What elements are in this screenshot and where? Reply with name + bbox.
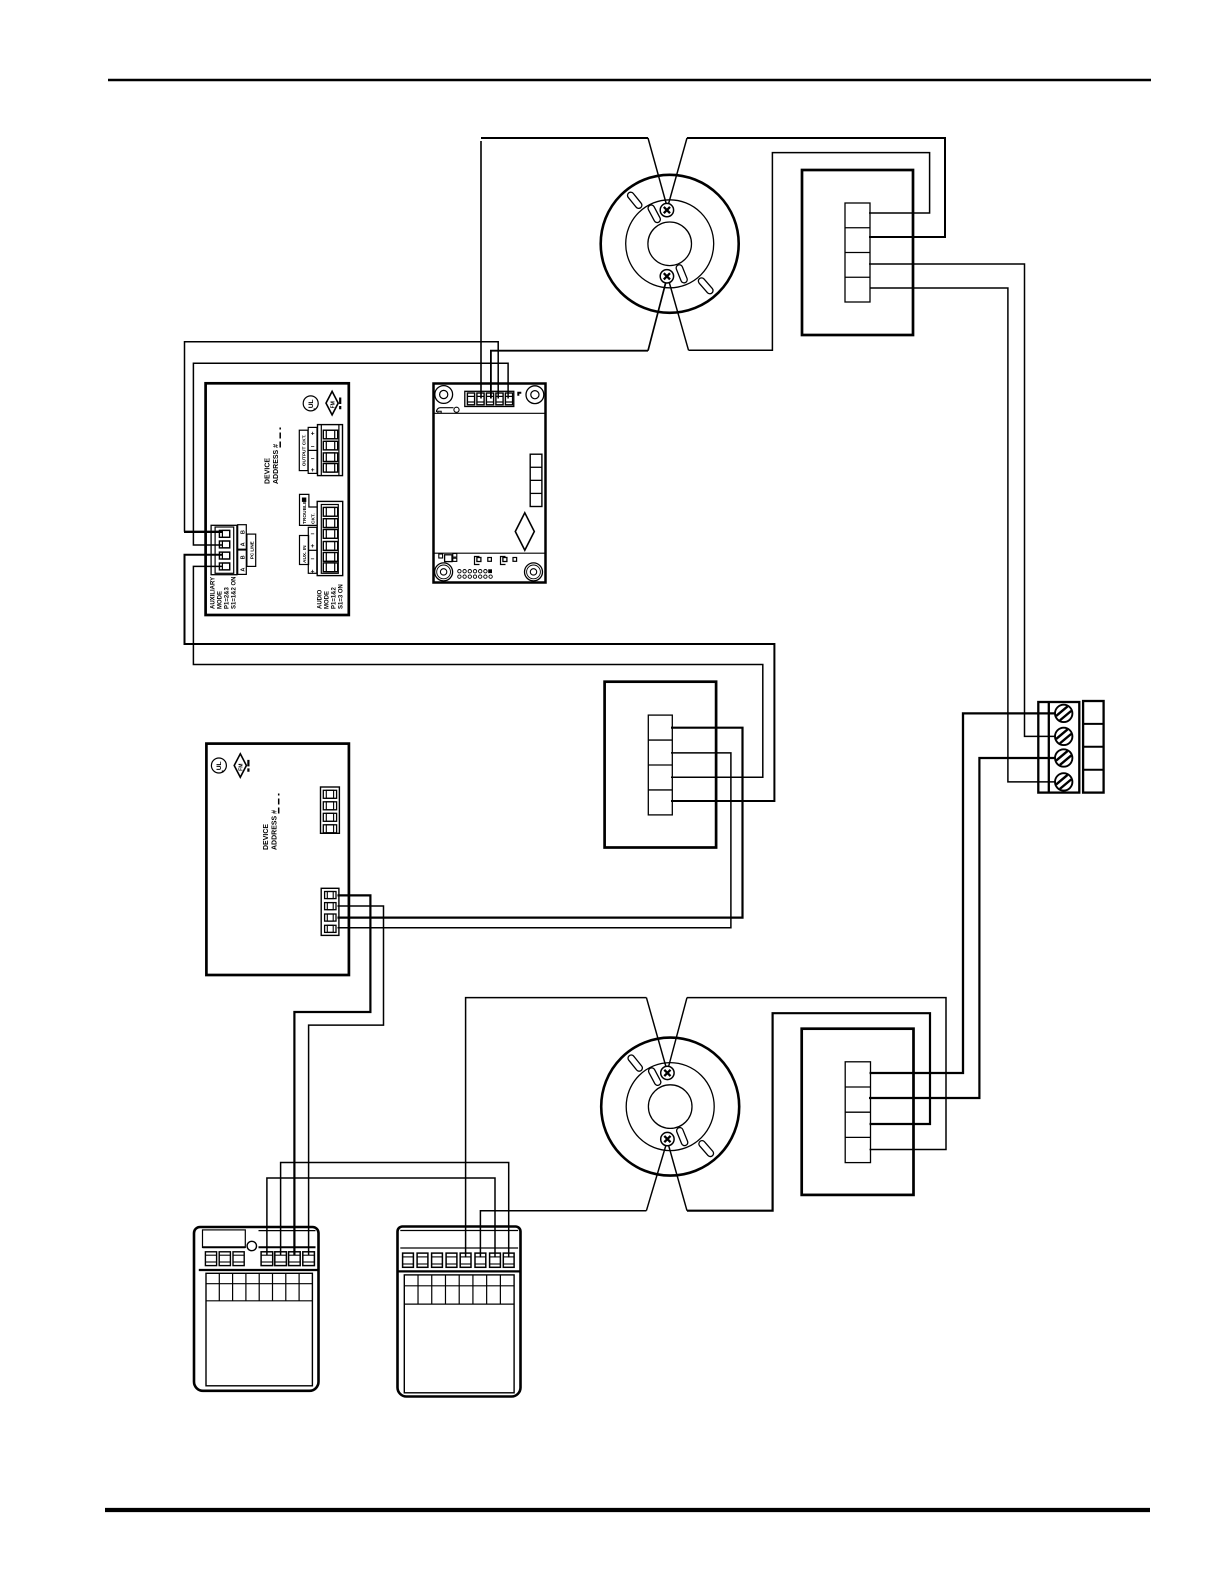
svg-text:A: A	[240, 568, 246, 572]
svg-text:CKT.: CKT.	[310, 513, 316, 524]
svg-text:−: −	[311, 456, 315, 463]
svg-text:UL: UL	[308, 399, 315, 408]
svg-text:P1=1&2: P1=1&2	[332, 586, 338, 609]
svg-text:−: −	[311, 556, 315, 563]
svg-text:TROUBLE: TROUBLE	[302, 500, 308, 524]
svg-text:+: +	[311, 543, 315, 550]
svg-text:MODE: MODE	[218, 591, 224, 609]
svg-text:ADDRESS #: ADDRESS #	[273, 444, 280, 484]
svg-text:B: B	[240, 530, 246, 534]
svg-text:A: A	[240, 542, 246, 546]
svg-text:S1=3 ON: S1=3 ON	[339, 584, 345, 609]
svg-text:AUXILIARY: AUXILIARY	[211, 577, 217, 609]
svg-text:FM: FM	[239, 764, 245, 771]
svg-text:AUDIO: AUDIO	[318, 589, 324, 609]
svg-text:P1=2&3: P1=2&3	[225, 586, 231, 609]
svg-text:S1=1&2 ON: S1=1&2 ON	[232, 576, 238, 609]
svg-text:−: −	[311, 531, 315, 538]
svg-text:−: −	[311, 444, 315, 451]
svg-text:DEVICE: DEVICE	[263, 824, 270, 850]
svg-text:ADDRESS #: ADDRESS #	[271, 810, 278, 850]
svg-text:DEVICE: DEVICE	[264, 458, 271, 484]
svg-text:+: +	[311, 430, 315, 437]
svg-text:B: B	[240, 555, 246, 559]
svg-text:FM: FM	[330, 401, 336, 408]
svg-text:AUX. IN: AUX. IN	[302, 545, 308, 563]
svg-text:+: +	[311, 568, 315, 575]
svg-text:PC LINE: PC LINE	[249, 541, 254, 559]
svg-text:MODE: MODE	[325, 591, 331, 609]
svg-text:UL: UL	[216, 762, 223, 771]
svg-text:OUTPUT CKT.: OUTPUT CKT.	[301, 435, 307, 467]
svg-text:+: +	[311, 467, 315, 474]
